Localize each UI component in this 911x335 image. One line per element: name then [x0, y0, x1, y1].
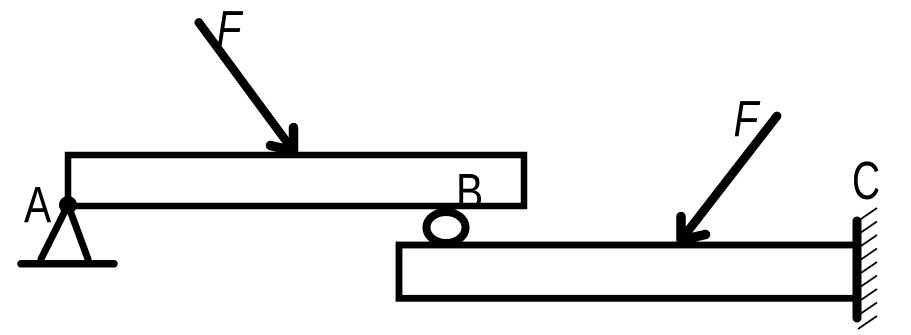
svg-text:A: A — [24, 176, 51, 233]
svg-text:C: C — [852, 150, 880, 211]
svg-text:F: F — [734, 90, 761, 147]
svg-text:B: B — [456, 163, 483, 220]
svg-text:F: F — [217, 0, 244, 57]
